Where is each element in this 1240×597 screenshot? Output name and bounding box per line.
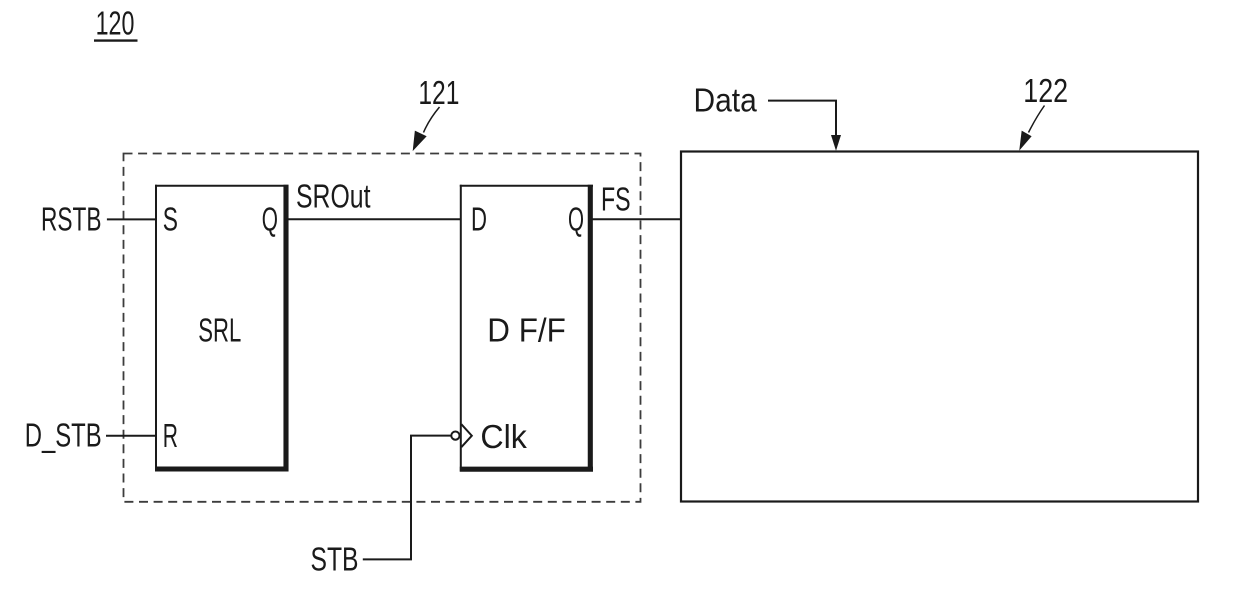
latch U-SRL box	[155, 185, 289, 472]
svg-text:122: 122	[1023, 72, 1068, 109]
dashed block 121 boundary	[124, 154, 641, 502]
svg-text:R: R	[163, 417, 178, 454]
wire leader arrow from 122 to block 122	[1020, 106, 1045, 150]
svg-text:D_STB: D_STB	[25, 417, 102, 454]
wire STB to Clk	[363, 436, 451, 560]
svg-text:S: S	[163, 201, 178, 238]
svg-text:FS: FS	[601, 181, 631, 218]
svg-text:Q: Q	[262, 201, 278, 238]
svg-text:Q: Q	[568, 201, 584, 238]
svg-text:Clk: Clk	[480, 418, 527, 455]
wire SRL Q to DFF D	[289, 218, 462, 220]
wire leader arrow from 121 to dashed block	[413, 107, 439, 150]
svg-text:D F/F: D F/F	[487, 312, 566, 349]
flip-flop U-DFF box	[460, 185, 593, 472]
svg-text:RSTB: RSTB	[41, 201, 102, 238]
svg-text:STB: STB	[311, 541, 359, 578]
svg-text:SRL: SRL	[198, 312, 241, 349]
svg-text:Data: Data	[694, 82, 758, 119]
wire D_STB to R	[106, 435, 157, 437]
svg-text:121: 121	[418, 74, 459, 111]
svg-text:D: D	[471, 201, 487, 238]
wire DFF Q to block 122	[591, 218, 682, 220]
wire Data into block 122 with arrowhead	[768, 101, 841, 151]
node 120 figure label	[94, 5, 138, 42]
svg-text:SROut: SROut	[296, 178, 371, 215]
clock edge wedge inside DFF	[461, 424, 472, 447]
svg-text:120: 120	[96, 5, 135, 42]
wire RSTB to S	[107, 218, 157, 220]
clock bubble on Clk pin	[451, 432, 459, 440]
block 122 box	[681, 152, 1198, 502]
